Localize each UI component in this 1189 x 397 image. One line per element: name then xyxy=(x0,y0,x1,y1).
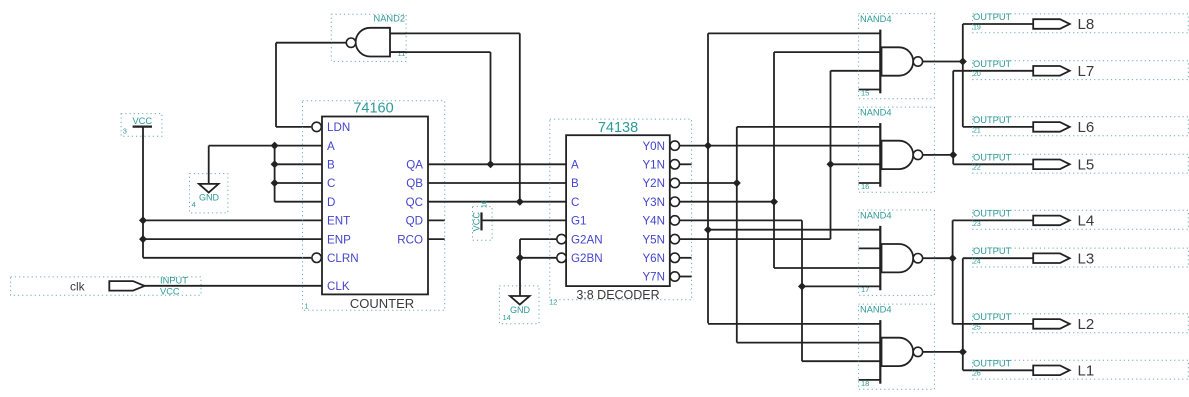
wire Y5N to NAND4-16 in3 xyxy=(831,163,859,165)
svg-text:QC: QC xyxy=(406,196,423,209)
NAND4 15 output bubble xyxy=(913,57,922,66)
junction VCC/ENT xyxy=(139,216,147,224)
wire GND to A-line junction xyxy=(209,145,275,147)
svg-text:3: 3 xyxy=(123,127,127,136)
svg-text:QA: QA xyxy=(406,159,423,172)
svg-text:23: 23 xyxy=(973,221,981,228)
wire to L6 xyxy=(963,126,1033,128)
74138 output bubbles xyxy=(670,141,679,281)
74160 COUNTER caption xyxy=(350,296,414,311)
NAND2 gate U11 selection box xyxy=(331,14,406,61)
wire to L4 xyxy=(953,219,1034,221)
NAND4 18 instance number xyxy=(861,379,869,388)
wire Y0N to NAND4-18 in1 xyxy=(708,323,859,325)
wire clk to CLK pin xyxy=(145,285,322,287)
wire Y0N horizontal (to NAND4-16 in2) xyxy=(679,145,859,147)
svg-text:OUTPUT: OUTPUT xyxy=(973,152,1012,162)
74138 title xyxy=(598,120,638,136)
svg-text:QD: QD xyxy=(406,215,423,228)
VCC 3 instance number xyxy=(123,127,127,136)
junction NAND2-in2/QA xyxy=(487,160,495,168)
wire Y3N to NAND4-15 in2 xyxy=(774,51,859,53)
wire VCC vertical down to CLRN row xyxy=(142,127,144,258)
instance number 21 xyxy=(973,127,981,134)
GND 4 triangle xyxy=(199,184,219,193)
svg-text:4: 4 xyxy=(192,200,196,209)
output pin L2 selection box xyxy=(973,314,1189,333)
wire 15out vertical xyxy=(962,24,964,127)
output pin L6 selection box xyxy=(973,117,1189,136)
wire Y2N to NAND4-16 in1 xyxy=(737,126,859,128)
wire QC to 74138 C xyxy=(428,201,566,203)
wire NAND4-18 output xyxy=(934,351,962,353)
wire QB to 74138 B xyxy=(428,182,566,184)
svg-text:Y7N: Y7N xyxy=(642,271,665,284)
input pin clk selection box xyxy=(11,277,201,295)
wire to L5 xyxy=(953,163,1033,165)
output pin symbol L4 xyxy=(1033,216,1070,226)
74138 body box xyxy=(566,135,670,286)
svg-text:ENT: ENT xyxy=(327,215,350,228)
svg-text:L5: L5 xyxy=(1078,157,1095,174)
svg-text:3:8 DECODER: 3:8 DECODER xyxy=(576,288,659,302)
NAND4 18 output bubble xyxy=(913,347,922,356)
svg-text:D: D xyxy=(327,196,335,209)
junction tie/C xyxy=(271,179,279,187)
svg-text:CLRN: CLRN xyxy=(327,252,359,265)
NAND4 gate 18 selection box xyxy=(859,304,935,389)
svg-text:RCO: RCO xyxy=(397,233,423,246)
svg-text:Y3N: Y3N xyxy=(642,196,665,209)
svg-text:10: 10 xyxy=(482,200,489,208)
output pin symbol L2 xyxy=(1033,319,1070,329)
NAND2 output stub xyxy=(331,42,346,44)
input pin clk symbol xyxy=(109,281,144,291)
svg-text:OUTPUT: OUTPUT xyxy=(973,208,1012,218)
OUTPUT label for L5 xyxy=(973,152,1012,162)
VCC 10 label xyxy=(472,212,482,232)
svg-text:Y6N: Y6N xyxy=(642,252,665,265)
svg-text:74138: 74138 xyxy=(598,120,638,136)
junction tie/B xyxy=(271,160,279,168)
OUTPUT label for L4 xyxy=(973,208,1012,218)
junction 16out xyxy=(949,151,957,159)
wire 17out vertical xyxy=(952,220,954,324)
NAND4 gate 17 selection box xyxy=(859,210,935,295)
svg-text:LDN: LDN xyxy=(327,121,350,134)
svg-text:25: 25 xyxy=(973,324,981,331)
junction 18out xyxy=(959,348,967,356)
NAND4 17 output stub xyxy=(923,257,935,259)
svg-text:C: C xyxy=(571,196,579,209)
svg-text:Y1N: Y1N xyxy=(642,159,665,172)
junction Y0N xyxy=(704,142,712,150)
OUTPUT label for L6 xyxy=(973,115,1012,125)
wire Y3N to NAND4-17 in3 xyxy=(774,267,859,269)
output pin L3 selection box xyxy=(973,248,1189,267)
wire C pin xyxy=(275,182,322,184)
wire ENT from VCC xyxy=(143,219,322,221)
VCC symbol 10 selection box xyxy=(473,207,493,241)
junction tie/A xyxy=(271,142,279,150)
74160 title xyxy=(353,101,393,117)
wire NAND4-17 output xyxy=(934,257,952,259)
74160 LDN bubble xyxy=(312,122,321,131)
VCC default label xyxy=(160,287,180,297)
NAND4 17 body xyxy=(882,244,914,272)
output pin symbol L3 xyxy=(1033,253,1070,263)
svg-text:NAND4: NAND4 xyxy=(860,305,892,315)
svg-text:L8: L8 xyxy=(1078,16,1095,33)
Y7N stub (unconnected) xyxy=(679,276,692,278)
svg-text:VCC: VCC xyxy=(132,116,152,126)
wire Y0N to NAND4-15 in1 xyxy=(708,32,859,34)
NAND4 15 body xyxy=(882,47,914,75)
pin name L6 xyxy=(1078,119,1095,136)
wire into LDN pin xyxy=(276,126,311,128)
pin name L8 xyxy=(1078,16,1095,33)
output pin L4 selection box xyxy=(973,210,1189,229)
output pin L5 selection box xyxy=(973,154,1189,173)
svg-text:C: C xyxy=(327,177,335,190)
svg-text:NAND2: NAND2 xyxy=(373,14,405,24)
wire to L1 xyxy=(963,369,1033,371)
NAND4 17 instance number xyxy=(861,285,869,294)
VCC 3 label xyxy=(132,116,152,126)
VCC 10 instance number xyxy=(482,200,489,208)
74138 left pin labels xyxy=(571,159,603,266)
NAND2 gate body (mirrored) xyxy=(356,28,390,57)
NAND4 16 output bubble xyxy=(913,150,922,159)
svg-text:OUTPUT: OUTPUT xyxy=(973,312,1012,322)
GND symbol 14 selection box xyxy=(499,286,539,324)
NAND2 input pin stub 2 xyxy=(390,51,406,53)
wire Y3N horizontal xyxy=(679,201,774,203)
instance number 26 xyxy=(973,371,981,378)
NAND4 18 input stubs xyxy=(859,324,881,380)
svg-text:B: B xyxy=(327,159,335,172)
svg-text:OUTPUT: OUTPUT xyxy=(973,358,1012,368)
GND 14 instance number xyxy=(503,313,511,322)
svg-text:VCC: VCC xyxy=(472,212,482,232)
NAND4 15 instance number xyxy=(861,89,869,98)
NAND4 17 input stubs xyxy=(859,230,881,287)
output pin symbol L6 xyxy=(1033,122,1070,132)
svg-text:VCC: VCC xyxy=(160,287,180,297)
wire Y4N vertical xyxy=(801,220,803,361)
wire NAND2 output horizontal xyxy=(276,42,331,44)
svg-text:19: 19 xyxy=(973,24,981,31)
wire QA to 74138 A xyxy=(428,163,566,165)
svg-text:12: 12 xyxy=(549,298,557,307)
svg-text:74160: 74160 xyxy=(353,101,393,117)
Y1N stub (unconnected) xyxy=(679,163,692,165)
74138 instance number 12 xyxy=(549,298,557,307)
wire NAND2 input1 vertical to QC line xyxy=(519,33,521,201)
wire G2BN horizontal xyxy=(520,257,557,259)
74160 body box xyxy=(322,117,428,295)
OUTPUT label for L2 xyxy=(973,312,1012,322)
svg-text:21: 21 xyxy=(973,127,981,134)
wire NAND4-15 output xyxy=(934,61,962,63)
74160 right pin labels xyxy=(397,159,423,247)
svg-text:L3: L3 xyxy=(1078,250,1095,267)
wire Y4N to NAND4-17 in4 xyxy=(802,285,859,287)
NAND4 16 instance number xyxy=(861,182,869,191)
svg-text:NAND4: NAND4 xyxy=(860,211,892,221)
pin name L7 xyxy=(1078,63,1095,80)
wire Y0N vertical xyxy=(707,33,709,323)
wire to L7 xyxy=(953,70,1033,72)
svg-text:26: 26 xyxy=(973,371,981,378)
junction Y3N xyxy=(770,198,778,206)
junction 15out xyxy=(959,58,967,66)
svg-text:Y5N: Y5N xyxy=(642,233,665,246)
svg-text:OUTPUT: OUTPUT xyxy=(973,115,1012,125)
junction G2BN xyxy=(516,254,524,262)
svg-text:L2: L2 xyxy=(1078,316,1095,333)
pin name L3 xyxy=(1078,250,1095,267)
wire NAND2 output vertical down to LDN xyxy=(275,43,277,127)
output pin symbol L8 xyxy=(1033,19,1070,29)
junction Y4N/17in4 xyxy=(798,282,806,290)
wire ENP from VCC xyxy=(143,238,322,240)
NAND4 15 label xyxy=(860,14,892,24)
wire vertical tie A-D xyxy=(274,146,276,202)
svg-text:G2BN: G2BN xyxy=(571,252,603,265)
svg-text:INPUT: INPUT xyxy=(160,276,188,286)
svg-text:G1: G1 xyxy=(571,215,586,228)
svg-text:G2AN: G2AN xyxy=(571,233,603,246)
INPUT label xyxy=(160,276,188,286)
Y6N stub (unconnected) xyxy=(679,257,692,259)
instance number 24 xyxy=(973,259,981,266)
svg-text:OUTPUT: OUTPUT xyxy=(973,59,1012,69)
wire Y5N horizontal xyxy=(679,238,831,240)
wire to L8 xyxy=(963,23,1033,25)
svg-text:L7: L7 xyxy=(1078,63,1095,80)
74160 CLRN bubble xyxy=(312,253,321,262)
output pin symbol L7 xyxy=(1033,66,1070,76)
instance number 22 xyxy=(973,165,981,172)
svg-text:COUNTER: COUNTER xyxy=(350,296,414,311)
junction Y5N/16in3 xyxy=(827,160,835,168)
wire Y5N vertical xyxy=(830,71,832,239)
RCO stub xyxy=(428,238,445,240)
svg-text:OUTPUT: OUTPUT xyxy=(973,246,1012,256)
wire Y5N to NAND4-15 in3 xyxy=(831,70,859,72)
junction Y2N xyxy=(733,179,741,187)
QD stub xyxy=(428,219,445,221)
output pin symbol L1 xyxy=(1033,366,1070,376)
74138 G2AN bubble xyxy=(557,234,566,243)
wire G2 vertical to GND xyxy=(519,239,521,296)
svg-text:1: 1 xyxy=(305,302,309,311)
svg-text:GND: GND xyxy=(510,305,531,315)
pin name L4 xyxy=(1078,213,1095,230)
74138 selection box xyxy=(550,119,692,300)
svg-text:OUTPUT: OUTPUT xyxy=(973,12,1012,22)
NAND4 17 label xyxy=(860,211,892,221)
OUTPUT label for L7 xyxy=(973,59,1012,69)
wire to L3 xyxy=(963,257,1033,259)
output pin L8 selection box xyxy=(973,14,1189,33)
instance number 19 xyxy=(973,24,981,31)
svg-text:B: B xyxy=(571,177,579,190)
VCC symbol 3 selection box xyxy=(121,114,162,137)
wire A pin xyxy=(275,145,322,147)
svg-text:NAND4: NAND4 xyxy=(860,14,892,24)
74138 caption xyxy=(576,288,659,302)
OUTPUT label for L1 xyxy=(973,358,1012,368)
GND 14 label xyxy=(510,305,531,315)
OUTPUT label for L3 xyxy=(973,246,1012,256)
74160 instance number 1 xyxy=(305,302,309,311)
svg-text:11: 11 xyxy=(398,49,406,58)
NAND2 input pin stub 1 xyxy=(390,32,406,34)
svg-text:Y2N: Y2N xyxy=(642,177,665,190)
wire GND stub up xyxy=(208,146,210,184)
junction NAND2-in1/QC xyxy=(516,198,524,206)
GND 4 label xyxy=(199,193,220,203)
GND 4 instance number xyxy=(192,200,196,209)
junction Y0N/17in1 xyxy=(704,226,712,234)
NAND4 15 input bar xyxy=(879,30,881,94)
NAND4 16 output stub xyxy=(923,154,935,156)
OUTPUT label for L8 xyxy=(973,12,1012,22)
instance number 20 xyxy=(973,71,981,78)
wire NAND2 input2 vertical to QA line xyxy=(490,52,492,164)
74138 right pin labels xyxy=(642,140,665,284)
NAND4 gate 15 selection box xyxy=(859,14,935,99)
junction VCC/ENP xyxy=(139,235,147,243)
wire NAND4-16 output xyxy=(934,154,953,156)
wire Y4N horizontal xyxy=(679,219,802,221)
wire to L2 xyxy=(953,323,1034,325)
VCC 3 bar xyxy=(133,125,152,127)
output pin symbol L5 xyxy=(1033,160,1070,170)
svg-text:A: A xyxy=(327,140,335,153)
output pin L7 selection box xyxy=(973,61,1189,80)
wire NAND2 input1 horizontal xyxy=(390,32,520,34)
pin name L5 xyxy=(1078,157,1095,174)
clk pin name xyxy=(70,279,86,293)
wire CLRN from VCC xyxy=(143,257,311,259)
svg-text:Y4N: Y4N xyxy=(642,215,665,228)
svg-text:ENP: ENP xyxy=(327,233,351,246)
svg-text:GND: GND xyxy=(199,193,220,203)
svg-text:14: 14 xyxy=(503,313,511,322)
NAND4 17 output bubble xyxy=(913,254,922,263)
NAND4 15 output stub xyxy=(923,61,935,63)
svg-text:Y0N: Y0N xyxy=(642,140,665,153)
svg-text:22: 22 xyxy=(973,165,981,172)
NAND2 label xyxy=(373,14,405,24)
GND 14 triangle xyxy=(510,296,530,305)
svg-text:20: 20 xyxy=(973,71,981,78)
wire G2AN horizontal xyxy=(520,238,557,240)
svg-text:L1: L1 xyxy=(1078,363,1095,380)
NAND4 16 input stubs xyxy=(859,127,881,183)
wire Y3N vertical xyxy=(773,52,775,268)
pin name L2 xyxy=(1078,316,1095,333)
wire Y4N to NAND4-18 in3 xyxy=(802,360,859,362)
wire Y0N to NAND4-17 in1 xyxy=(708,229,859,231)
svg-text:L4: L4 xyxy=(1078,213,1095,230)
VCC 10 bar xyxy=(480,212,482,230)
svg-text:NAND4: NAND4 xyxy=(860,108,892,118)
NAND4 16 body xyxy=(882,141,914,169)
wire G1 from VCC10 xyxy=(482,219,567,221)
NAND4 15 input stubs xyxy=(859,33,881,89)
NAND4 17 input bar xyxy=(879,226,881,290)
wire 18out vertical xyxy=(962,258,964,370)
NAND2 output bubble xyxy=(346,38,355,47)
NAND2 instance number 11 xyxy=(398,49,406,58)
74160 left pin labels xyxy=(327,121,359,293)
wire NAND2 input2 horizontal xyxy=(390,51,491,53)
74160 selection box xyxy=(303,101,445,311)
NAND4 16 input bar xyxy=(879,123,881,187)
wire Y2N to NAND4-18 in2 xyxy=(737,342,859,344)
wire 16out vertical xyxy=(952,71,954,165)
svg-text:clk: clk xyxy=(70,279,86,293)
pin name L1 xyxy=(1078,363,1095,380)
svg-text:QB: QB xyxy=(406,177,423,190)
GND symbol 4 selection box xyxy=(190,174,228,213)
NAND4 18 input bar xyxy=(879,320,881,384)
NAND4 16 label xyxy=(860,108,892,118)
svg-text:A: A xyxy=(571,159,579,172)
instance number 25 xyxy=(973,324,981,331)
74138 G2BN bubble xyxy=(557,253,566,262)
NAND4 gate 16 selection box xyxy=(859,107,935,192)
svg-text:L6: L6 xyxy=(1078,119,1095,136)
junction 17out xyxy=(949,254,957,262)
NAND4 18 body xyxy=(882,338,914,366)
instance number 23 xyxy=(973,221,981,228)
wire Y2N horizontal xyxy=(679,182,737,184)
wire B pin xyxy=(275,163,322,165)
svg-text:CLK: CLK xyxy=(327,280,350,293)
wire Y2N vertical xyxy=(736,127,738,343)
NAND4 18 output stub xyxy=(923,351,935,353)
wire D pin xyxy=(275,201,322,203)
svg-text:24: 24 xyxy=(973,259,981,266)
output pin L1 selection box xyxy=(973,360,1189,379)
NAND4 18 label xyxy=(860,305,892,315)
